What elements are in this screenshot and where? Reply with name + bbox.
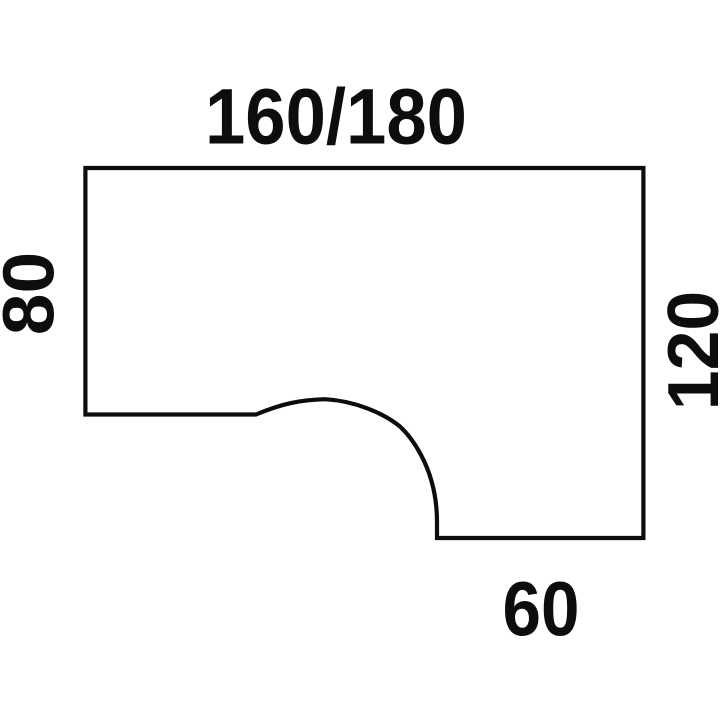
svg-text:160/180: 160/180 — [205, 72, 467, 161]
svg-text:80: 80 — [0, 252, 69, 336]
desk top outline — [85, 168, 643, 538]
svg-text:120: 120 — [654, 291, 720, 411]
svg-text:60: 60 — [503, 567, 580, 653]
